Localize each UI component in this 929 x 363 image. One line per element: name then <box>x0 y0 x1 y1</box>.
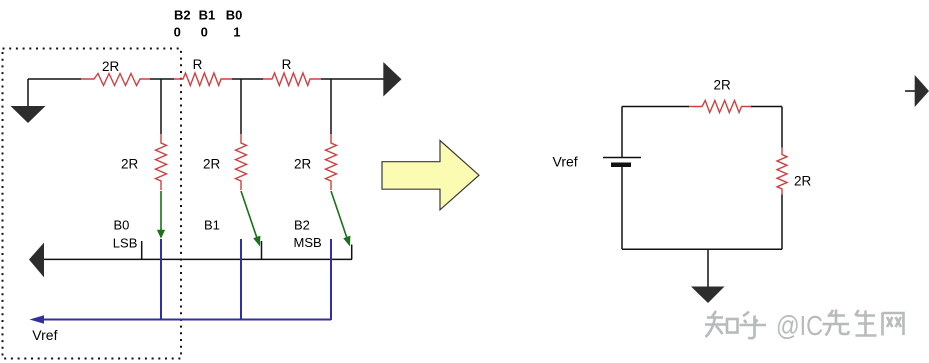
svg-text:B1: B1 <box>199 7 216 22</box>
svg-text:MSB: MSB <box>294 235 322 250</box>
resistor 2R (series, horizontal) <box>689 101 751 113</box>
resistor 2R (branch B1, vertical) <box>236 134 247 190</box>
wire branch stub B0 <box>160 79 162 134</box>
Vref contact line B1 (blue) <box>240 239 242 320</box>
svg-text:0: 0 <box>201 25 208 40</box>
生 <box>855 310 877 336</box>
wire output stub (far right) <box>905 90 915 92</box>
battery Vref (positive plate) <box>603 157 641 159</box>
output arrow (Vout, top right of ladder) <box>383 62 401 97</box>
resistor 2R (branch B0, vertical) <box>156 134 167 190</box>
wire right vertical above 2R <box>781 107 783 148</box>
switch B2 (green arrow to ground bus contact) <box>331 191 350 247</box>
svg-text:B2: B2 <box>174 7 191 22</box>
wire branch stub B2 <box>330 79 332 134</box>
wire ground stub <box>27 79 29 106</box>
svg-text:0: 0 <box>174 25 181 40</box>
svg-text:Vref: Vref <box>32 327 57 343</box>
wire branch stub B1 <box>240 79 242 134</box>
Vref bus arrowhead <box>30 315 45 324</box>
svg-text:1: 1 <box>233 25 240 40</box>
svg-text:2R: 2R <box>102 59 120 74</box>
resistor 2R (load, vertical) <box>777 148 787 195</box>
wire top right <box>751 106 782 108</box>
resistor R (between node B0 and B1) <box>174 73 232 86</box>
watermark 知乎 @IC先生网 (drawn strokes, light gray) <box>705 310 904 339</box>
contact tick B0 (ground side) <box>141 241 143 259</box>
equivalence arrow (yellow block arrow) <box>382 141 479 210</box>
resistor 2R (branch B2, vertical) <box>326 134 337 190</box>
wire left vertical below battery <box>621 167 623 249</box>
svg-text:B0: B0 <box>114 218 130 233</box>
wire ground stub (right circuit) <box>707 249 709 286</box>
equivalent-circuit boundary (dotted box) <box>3 49 182 359</box>
svg-text:2R: 2R <box>203 157 221 172</box>
Vref contact line B0 (blue) <box>160 239 162 320</box>
ground bus (output summing line) <box>44 258 352 260</box>
ground (right circuit) <box>691 287 725 304</box>
svg-text:2R: 2R <box>714 78 732 93</box>
resistor 2R (horizontal, terminating) <box>81 74 150 86</box>
ground (left) <box>11 106 46 123</box>
svg-text:B2: B2 <box>294 218 310 233</box>
svg-text:LSB: LSB <box>113 236 138 251</box>
output arrow far right <box>915 75 929 107</box>
wire top left (Vref+ to 2R) <box>622 106 689 108</box>
wire rail node B1 <box>232 78 263 80</box>
resistor R (between node B1 and B2) <box>263 73 321 86</box>
svg-text:2R: 2R <box>121 157 139 172</box>
wire bottom rail <box>622 248 782 250</box>
output arrow left (current output) <box>29 243 44 278</box>
switch B0 (green arrow to Vref bus contact) <box>157 191 165 239</box>
svg-text:B0: B0 <box>226 7 243 22</box>
Vref contact line B2 (blue) <box>330 239 332 320</box>
svg-text:2R: 2R <box>794 174 812 189</box>
svg-text:Vref: Vref <box>553 154 578 170</box>
乎 <box>740 312 767 339</box>
svg-text:R: R <box>282 57 292 72</box>
svg-text:@IC: @IC <box>776 310 823 341</box>
battery Vref (negative plate) <box>611 163 631 168</box>
网 <box>883 313 904 336</box>
switch B1 (green arrow to ground bus contact) <box>241 191 260 247</box>
contact tick B1 (ground side) <box>261 241 263 259</box>
svg-text:R: R <box>193 57 203 72</box>
contact tick B2 (ground side) <box>351 245 353 260</box>
先 <box>823 310 850 336</box>
node top rail (wire from ground to 2R) <box>28 78 81 80</box>
svg-text:2R: 2R <box>294 157 312 172</box>
wire left vertical above battery <box>621 107 623 158</box>
Vref bus (blue horizontal) <box>40 319 331 321</box>
知 <box>705 311 726 337</box>
wire right vertical below 2R <box>781 195 783 250</box>
wire rail to output arrow <box>321 78 384 80</box>
svg-text:B1: B1 <box>204 218 220 233</box>
wire rail node B0 <box>150 78 174 80</box>
